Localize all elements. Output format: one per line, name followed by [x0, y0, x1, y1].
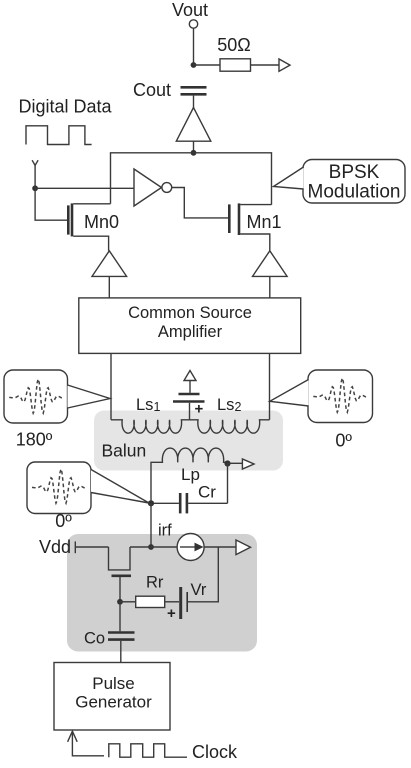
svg-text:Balun: Balun	[102, 441, 147, 461]
port output (triangle)	[279, 59, 290, 71]
antenna input	[32, 160, 38, 188]
svg-text:irf: irf	[158, 522, 172, 540]
wire Rr	[120, 601, 136, 603]
svg-text:Digital Data: Digital Data	[19, 97, 113, 117]
svg-text:Amplifier: Amplifier	[158, 323, 223, 341]
wire CS amp to balun right	[269, 353, 271, 419]
svg-text:Co: Co	[84, 630, 105, 648]
junction antenna node	[32, 185, 38, 191]
buffer A3	[253, 251, 288, 277]
wire Cout to buffer	[193, 96, 195, 108]
wire resistor to port	[251, 64, 280, 66]
source Vr	[167, 581, 207, 622]
port pulse output	[236, 540, 251, 555]
label Clock	[192, 742, 238, 762]
svg-text:Lp: Lp	[181, 465, 200, 484]
wire node down to irf	[150, 503, 152, 547]
svg-text:Vdd: Vdd	[39, 537, 71, 557]
current source irf	[177, 534, 204, 561]
wire modulator box top	[111, 153, 272, 205]
svg-text:0º: 0º	[55, 511, 72, 531]
wire clock arrow	[68, 731, 104, 756]
waveform digital data	[26, 126, 92, 145]
capacitor Co	[84, 602, 135, 648]
transistor Mn1	[229, 203, 281, 250]
junction box top	[191, 150, 197, 156]
wire inverter out to Mn1 gate	[172, 188, 228, 218]
svg-text:Vr: Vr	[191, 581, 207, 599]
box Common Source Amplifier	[79, 298, 301, 354]
svg-text:180º: 180º	[16, 430, 53, 450]
box Pulse Generator	[54, 663, 170, 731]
gray region pulse driver	[67, 534, 257, 652]
wire antenna to inverter	[35, 187, 134, 189]
capacitor Cr	[180, 483, 216, 514]
callout 180 deg	[4, 370, 110, 450]
transistor M_sw source drain	[109, 547, 178, 570]
svg-text:Mn0: Mn0	[84, 212, 119, 232]
svg-text:Pulse: Pulse	[92, 674, 135, 693]
wire Lp junction down	[227, 463, 229, 503]
wire to 50 ohm	[194, 64, 221, 66]
wire Vr to irf output	[188, 547, 218, 602]
wire antenna to Mn0 gate	[35, 188, 67, 220]
wire Co to pulse generator	[120, 641, 122, 663]
svg-text:Cout: Cout	[133, 80, 171, 100]
wire irf to port	[204, 546, 236, 548]
buffer A1	[176, 108, 211, 142]
callout 0 deg right	[270, 370, 373, 451]
svg-text:Rr: Rr	[146, 574, 164, 592]
node Vout	[172, 0, 208, 28]
wire Vout down	[193, 28, 195, 65]
label irf	[158, 522, 172, 540]
buffer A2	[92, 251, 127, 277]
svg-text:50Ω: 50Ω	[217, 35, 250, 55]
svg-text:Common Source: Common Source	[128, 304, 252, 322]
svg-text:Cr: Cr	[198, 483, 216, 502]
svg-text:0º: 0º	[335, 431, 352, 451]
wire CS amp to balun left	[110, 353, 112, 419]
svg-text:Clock: Clock	[192, 742, 238, 762]
transistor Mn0	[68, 203, 119, 250]
callout 0 deg mid	[27, 462, 149, 531]
svg-text:Ls1: Ls1	[136, 396, 160, 414]
wire node to Cr and back	[151, 502, 228, 504]
port balun output	[242, 459, 254, 469]
wire Vdd to transistor	[75, 546, 108, 548]
svg-text:Generator: Generator	[75, 693, 152, 712]
inductor Lp	[151, 448, 228, 503]
svg-text:Vout: Vout	[172, 0, 208, 20]
transistor M_sw gate	[112, 576, 132, 602]
svg-text:+: +	[195, 401, 204, 418]
node Vdd	[39, 537, 75, 557]
junction irf node	[148, 544, 154, 550]
gray region Balun	[94, 411, 283, 471]
label Balun	[102, 441, 147, 461]
resistor Rr	[136, 574, 165, 608]
inductor Ls1 Ls2 (balun primary)	[111, 396, 270, 433]
svg-text:Ls2: Ls2	[217, 396, 241, 414]
wire Rr to Vr	[165, 601, 179, 603]
wire Lp to port	[228, 462, 243, 464]
waveform clock	[109, 744, 187, 757]
junction resonator node	[148, 500, 154, 506]
junction gate node	[117, 599, 123, 605]
wire A2 to CS amp	[108, 276, 110, 298]
capacitor Cout	[133, 80, 207, 100]
junction Vout node	[191, 62, 197, 68]
resistor 50ohm	[217, 35, 250, 71]
supply symbol center tap	[184, 371, 196, 393]
inverter U1	[134, 169, 172, 206]
callout BPSK Modulation	[274, 160, 406, 204]
label Digital Data	[19, 97, 113, 117]
svg-text:Mn1: Mn1	[247, 212, 282, 232]
svg-text:+: +	[167, 605, 176, 622]
junction Lp out	[224, 460, 230, 466]
wire buffer to box	[193, 141, 195, 153]
capacitor center tap	[173, 394, 205, 420]
svg-text:BPSK: BPSK	[329, 162, 380, 183]
svg-text:Modulation: Modulation	[308, 182, 401, 203]
wire A3 to CS amp	[269, 276, 271, 298]
